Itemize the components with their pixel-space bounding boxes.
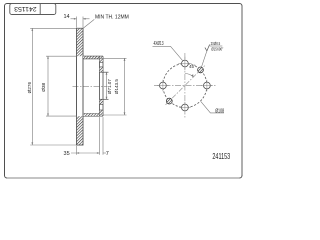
svg-text:35: 35 [64, 151, 70, 157]
dimension Ø38 (hat) [46, 56, 77, 116]
dimension 35 (hat height) bottom [71, 117, 100, 155]
threaded hole 2xM8.5 lower left (hatched) [166, 98, 172, 104]
title box top-left [10, 4, 56, 15]
bolt hole edges in flange [100, 62, 104, 110]
center crosshair [154, 53, 216, 118]
hat bottom wall [83, 114, 103, 117]
svg-text:14: 14 [63, 14, 69, 20]
dimension: thickness 14 at top [71, 17, 90, 28]
svg-text:241153: 241153 [212, 152, 230, 161]
svg-text:7: 7 [106, 151, 109, 157]
svg-text:45°: 45° [189, 64, 196, 69]
dimension 7 (flange thickness) bottom [103, 117, 106, 155]
bolt circle dashed [163, 64, 207, 108]
dimension Ø143.5 [101, 58, 127, 115]
centerline [73, 86, 108, 88]
svg-text:Ø71.07: Ø71.07 [107, 79, 112, 95]
disc ring section (hatched bar) [77, 28, 84, 145]
hat top wall [83, 56, 103, 59]
threaded hole 2xM8.5 upper right (hatched) [198, 67, 204, 73]
45 deg arc [185, 73, 194, 77]
border frame [5, 4, 243, 179]
bolt holes 4x [160, 60, 211, 111]
dimension Ø276 [30, 28, 76, 145]
dimension Ø71.07 [106, 72, 108, 99]
leader MIN TH 12MM [83, 19, 94, 28]
svg-text:Ø38: Ø38 [41, 83, 47, 92]
svg-text:Ø276: Ø276 [27, 82, 33, 94]
bore edges [100, 72, 109, 99]
hub flange [100, 56, 104, 116]
svg-text:MIN TH. 12MM: MIN TH. 12MM [95, 15, 129, 21]
svg-text:Ø143.5: Ø143.5 [114, 79, 119, 95]
svg-text:241153: 241153 [14, 5, 37, 12]
svg-text:Ø15X90°: Ø15X90° [211, 47, 223, 52]
svg-text:Ø108: Ø108 [215, 109, 224, 115]
